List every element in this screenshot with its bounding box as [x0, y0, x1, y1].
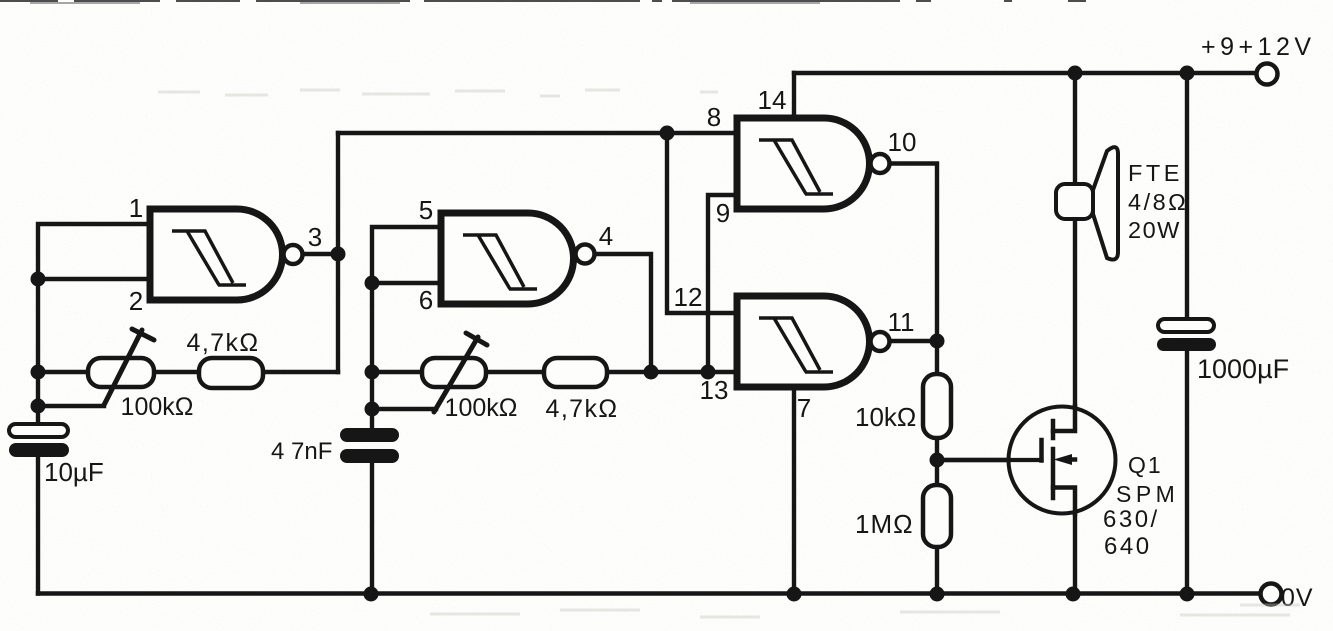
svg-text:1000µF: 1000µF — [1197, 354, 1289, 384]
svg-text:630/: 630/ — [1103, 506, 1160, 533]
svg-text:13: 13 — [700, 375, 729, 405]
svg-text:SPM: SPM — [1116, 481, 1179, 507]
svg-text:FTE: FTE — [1128, 160, 1183, 186]
svg-text:4/8Ω: 4/8Ω — [1128, 189, 1188, 215]
svg-text:20W: 20W — [1128, 217, 1181, 243]
svg-text:640: 640 — [1104, 533, 1152, 560]
svg-text:7: 7 — [797, 393, 811, 423]
svg-text:10: 10 — [888, 127, 917, 157]
svg-text:14: 14 — [758, 85, 787, 115]
svg-text:10µF: 10µF — [44, 457, 104, 487]
svg-text:100kΩ: 100kΩ — [445, 394, 518, 422]
svg-text:4,7kΩ: 4,7kΩ — [546, 395, 619, 423]
svg-text:4: 4 — [599, 221, 613, 251]
svg-text:11: 11 — [888, 307, 915, 337]
svg-text:6: 6 — [419, 285, 433, 315]
svg-text:1MΩ: 1MΩ — [855, 509, 914, 539]
svg-text:0V: 0V — [1281, 584, 1314, 612]
svg-text:+9+12V: +9+12V — [1201, 33, 1316, 61]
svg-text:10kΩ: 10kΩ — [855, 402, 916, 432]
svg-text:8: 8 — [707, 102, 721, 132]
svg-text:9: 9 — [716, 198, 730, 228]
svg-text:3: 3 — [308, 222, 322, 252]
svg-text:4,7kΩ: 4,7kΩ — [187, 329, 260, 357]
svg-text:12: 12 — [674, 282, 703, 312]
svg-text:100kΩ: 100kΩ — [121, 393, 194, 421]
svg-text:5: 5 — [419, 195, 433, 225]
svg-text:1: 1 — [129, 193, 143, 223]
svg-text:4 7nF: 4 7nF — [271, 438, 332, 465]
svg-text:2: 2 — [129, 286, 143, 316]
svg-text:Q1: Q1 — [1128, 452, 1163, 478]
